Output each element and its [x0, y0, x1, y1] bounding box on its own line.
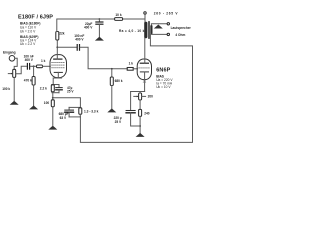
ground (100R)	[48, 126, 57, 130]
ground (680k)	[107, 108, 116, 112]
wire secondary bottom to speaker	[151, 33, 167, 35]
bias text block 6J9P	[20, 35, 38, 46]
svg-text:Ra = 4,0 - 10 k: Ra = 4,0 - 10 k	[119, 29, 145, 33]
ground (470k)	[29, 105, 38, 109]
wire 470k to ground	[33, 85, 35, 105]
resistor 470k body	[32, 77, 35, 86]
wire pot wiper to C1	[16, 66, 27, 74]
svg-text:Uk = 2.2 V: Uk = 2.2 V	[20, 42, 36, 46]
bias text block 6N6P	[156, 75, 173, 89]
svg-text:400 V: 400 V	[84, 25, 93, 29]
trimmer P2 200 body	[139, 93, 142, 100]
trimmer P2 right stub	[142, 95, 146, 97]
input jack J1	[9, 56, 15, 62]
wire junction to 680k	[111, 69, 113, 77]
capacitor C1 100nF plates	[26, 64, 28, 70]
node plate junction	[56, 46, 58, 48]
V2 cathode lead	[144, 72, 146, 92]
svg-text:400 V: 400 V	[25, 58, 34, 62]
svg-text:6N6P: 6N6P	[156, 67, 170, 73]
node feedback junction	[52, 97, 54, 99]
svg-text:400 V: 400 V	[75, 38, 84, 42]
node rail/C6 junction	[99, 18, 101, 20]
wire C6 to ground	[98, 24, 100, 36]
svg-text:Uk = 10 V: Uk = 10 V	[156, 85, 171, 89]
resistor 100 body	[51, 100, 54, 107]
svg-text:63 V: 63 V	[60, 116, 67, 120]
svg-text:240: 240	[144, 112, 150, 116]
V1 plate lead	[56, 40, 58, 59]
wire junction down to R 470k	[33, 66, 35, 76]
resistor 1k grid stopper V2	[127, 68, 133, 71]
bias text block E180F	[20, 22, 40, 34]
transformer T1 core	[147, 22, 149, 39]
wire cathode top bar	[52, 84, 59, 86]
resistor 2.2k body	[51, 85, 54, 92]
resistor 680k body	[110, 77, 113, 86]
capacitor C3 47uF	[58, 85, 60, 88]
transformer T1 primary	[144, 22, 147, 38]
wire plate node to C2	[57, 46, 76, 48]
wire 100 to ground	[52, 107, 54, 126]
svg-text:10 k: 10 k	[115, 13, 121, 17]
svg-text:200: 200	[148, 95, 154, 99]
svg-text:2.2 k: 2.2 k	[40, 87, 47, 91]
svg-text:260 - 265 V: 260 - 265 V	[154, 11, 179, 15]
svg-text:Eingang: Eingang	[3, 51, 16, 55]
wire feedback tap	[53, 98, 81, 108]
wire 680k to ground	[111, 86, 113, 109]
ground (V2 cathode)	[136, 133, 145, 137]
speaker terminal 1	[167, 23, 169, 25]
wire cathode bottom bar	[52, 92, 59, 94]
wire pot bottom to ground	[13, 77, 15, 100]
V1 cathode lead	[57, 72, 59, 77]
svg-text:470 k: 470 k	[24, 78, 32, 82]
potentiometer P1 wiper arrow	[8, 73, 11, 75]
wire secondary top to speaker	[151, 24, 167, 25]
svg-text:Uk = 2.0 V: Uk = 2.0 V	[20, 29, 36, 33]
V2 grid dashes	[139, 67, 150, 69]
V2 plate lead	[144, 38, 146, 63]
wire feedback bottom run	[80, 34, 192, 142]
wire 240 to ground	[139, 116, 141, 133]
transformer T1 secondary	[150, 25, 152, 34]
wire trimmer to R 240	[139, 100, 141, 109]
svg-text:E180F / 6J9P: E180F / 6J9P	[18, 14, 53, 20]
resistor 22k body	[56, 32, 59, 41]
V1 cathode bar	[54, 71, 62, 73]
svg-text:1 k: 1 k	[129, 61, 134, 65]
wire C2 to V2 grid node	[80, 47, 127, 69]
node cap bottom junction	[139, 125, 141, 127]
resistor R7 feedback body	[79, 108, 82, 115]
V1 grid g2 dashes	[52, 64, 65, 66]
svg-text:680 k: 680 k	[115, 79, 123, 83]
capacitor C6 22uF	[98, 19, 100, 22]
svg-text:100 k: 100 k	[2, 87, 10, 91]
V1 base bar	[53, 77, 61, 84]
wire C1 to R grid	[30, 65, 36, 67]
wire supply to transformer	[144, 14, 146, 22]
svg-text:25 V: 25 V	[67, 89, 74, 93]
V1 plate bar	[54, 58, 62, 60]
wire 1k to V1 grid	[43, 65, 51, 67]
svg-text:1 1: 1 1	[143, 80, 147, 84]
node V2 grid junction	[111, 68, 113, 70]
svg-text:1 k: 1 k	[41, 59, 46, 63]
svg-text:100: 100	[44, 101, 50, 105]
potentiometer P1 100k body	[13, 69, 16, 77]
wire cathode node down	[52, 92, 54, 100]
feedback network top bar	[69, 106, 80, 108]
speaker terminal 2	[167, 33, 169, 35]
tube V1 E180F envelope	[50, 55, 67, 78]
capacitor C2 100nF plates	[76, 45, 78, 51]
wire R7 bottom	[79, 114, 81, 117]
V1 grid g3 dashes	[52, 61, 65, 63]
resistor 1k grid stopper V1	[37, 65, 43, 68]
node grid junction	[33, 65, 35, 67]
resistor 240 body	[139, 109, 142, 116]
wire 1k to V2 grid	[133, 68, 137, 70]
trimmer P2 wiper arrow	[134, 95, 138, 97]
resistor 10k body (rail)	[115, 18, 123, 21]
V2 plate bar	[140, 62, 148, 64]
svg-text:25 V: 25 V	[115, 120, 122, 124]
feedback network bottom bar	[69, 116, 80, 118]
svg-text:Lautsprecher: Lautsprecher	[171, 26, 192, 30]
top rail wire	[57, 19, 145, 32]
svg-text:22k: 22k	[59, 31, 65, 35]
ground (speaker)	[154, 25, 163, 29]
svg-text:4 Ohm: 4 Ohm	[175, 33, 185, 37]
wire cathode to trimmer/cap	[131, 91, 145, 93]
wire jack to pot	[14, 58, 17, 69]
ground (filter cap)	[95, 37, 104, 41]
tube V2 6N6P envelope	[137, 59, 151, 80]
capacitor C4 680uF	[68, 107, 70, 110]
capacitor C5 220uF	[130, 92, 132, 111]
V1 grid g1 dashes	[52, 67, 65, 69]
supply terminal	[144, 12, 146, 14]
V2 cathode bar	[140, 71, 148, 73]
ground (pot)	[10, 101, 19, 105]
svg-text:1.3 - 3.3 k: 1.3 - 3.3 k	[84, 109, 99, 113]
